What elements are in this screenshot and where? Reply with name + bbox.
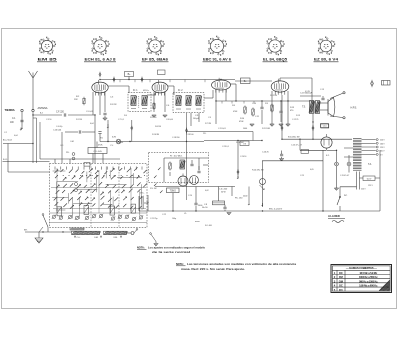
wire antena drop xyxy=(32,112,34,163)
capacitor C12 cathode bypass xyxy=(279,101,282,122)
svg-text:T.S.: T.S. xyxy=(302,106,306,109)
wire V1 cathode drop xyxy=(93,92,105,115)
svg-text:C.V.: C.V. xyxy=(110,145,114,147)
svg-text:C.15 47+47: C.15 47+47 xyxy=(340,175,349,177)
svg-text:C.24 16: C.24 16 xyxy=(240,156,247,158)
label FM 10,7 Mc xyxy=(170,155,183,157)
speaker cone H.P.S. xyxy=(328,98,335,117)
meter diamond M7 xyxy=(237,169,239,175)
label RED xyxy=(328,214,345,218)
svg-text:P.U.: P.U. xyxy=(66,152,70,154)
arrow M7 xyxy=(237,176,239,179)
label R14 value xyxy=(219,189,228,194)
ground lug arrow xyxy=(21,126,23,129)
FI2 internal links xyxy=(176,108,201,110)
mains switch arm xyxy=(337,196,341,211)
speaker frame xyxy=(327,99,329,116)
table GAMAS CUBIERTAS frame xyxy=(331,265,392,293)
tube label EF 85, 6BA6 xyxy=(142,58,169,62)
svg-text:C.15 47 + 47: C.15 47 + 47 xyxy=(291,145,303,147)
label interruptor xyxy=(24,230,28,232)
svg-text:Las tensiones anotadas son med: Las tensiones anotadas son medidas con v… xyxy=(187,262,297,266)
arrow to chassis xyxy=(20,128,22,131)
output transformer T.S. label xyxy=(302,106,306,109)
arrow lamp bottom xyxy=(261,203,263,206)
wire riser M4 xyxy=(131,120,133,142)
wire V3 plate riser xyxy=(220,79,222,82)
wire riser M3 xyxy=(107,120,109,142)
label heater line xyxy=(235,197,243,199)
wire FI1 secondary to V2 grid xyxy=(147,93,155,95)
volume potentiometer R.V. xyxy=(140,193,148,212)
wire V2 plate to FI2 xyxy=(168,86,174,95)
wire B+ rail xyxy=(282,138,352,140)
svg-text:16,5 Mc a 5,9 Mc: 16,5 Mc a 5,9 Mc xyxy=(359,271,377,275)
svg-text:O.M.: O.M. xyxy=(94,237,99,239)
svg-text:VOL.: VOL. xyxy=(140,193,145,195)
meter diamond M4 xyxy=(131,125,133,131)
IF transformer FI2 shield box xyxy=(173,93,204,113)
IF transformer FI1 trimmers xyxy=(131,96,147,109)
svg-text:ECH 81, 6 AJ 8: ECH 81, 6 AJ 8 xyxy=(85,58,116,62)
svg-text:T.V.: T.V. xyxy=(100,138,104,140)
ground chassis xyxy=(35,227,43,243)
table corner hatch xyxy=(379,280,390,291)
svg-text:C.6 a 500: C.6 a 500 xyxy=(219,189,228,191)
svg-text:C.23 0,1: C.23 0,1 xyxy=(222,146,230,148)
FM unit wires xyxy=(164,158,208,182)
wire HT right vertical xyxy=(322,150,324,211)
wire detector load drop xyxy=(191,113,199,126)
terminal box aux xyxy=(301,150,309,154)
wire CV links xyxy=(93,142,103,164)
label T.A. xyxy=(368,163,372,166)
wire meter branch xyxy=(237,141,239,179)
label 470K left xyxy=(243,196,248,198)
svg-text:R.16 3M: R.16 3M xyxy=(152,134,159,136)
svg-text:FO: FO xyxy=(339,288,343,292)
wire V3 cathode drop xyxy=(216,90,226,124)
svg-text:R.3 22K: R.3 22K xyxy=(110,104,117,106)
label C13 network xyxy=(300,93,313,95)
capacitor C14 box xyxy=(321,124,329,128)
wire chassis run xyxy=(25,231,72,233)
label escala xyxy=(269,208,283,210)
wire tierra drop xyxy=(21,112,23,126)
label C15 xyxy=(291,145,303,147)
capacitor C2 220pF xyxy=(56,112,66,117)
IF transformer FI1 shield box xyxy=(128,93,151,112)
trimmer row wires xyxy=(50,213,148,223)
svg-text:470K: 470K xyxy=(233,111,238,113)
resistor R9 divider xyxy=(252,108,254,117)
ground V4 cathode xyxy=(270,124,290,126)
svg-text:P.U.: P.U. xyxy=(203,133,207,135)
label R13 xyxy=(290,107,295,112)
meter diamond M4b xyxy=(185,128,187,134)
wire filter link xyxy=(300,139,326,150)
output transformer T.S. windings xyxy=(309,101,320,114)
svg-text:de la serie normal: de la serie normal xyxy=(152,250,190,254)
svg-text:0,5 W: 0,5 W xyxy=(305,91,310,93)
wire V3 to coupling xyxy=(230,84,236,101)
wire lamp branch vertical xyxy=(262,161,264,207)
wire long AF bus xyxy=(139,210,345,212)
mains tap labels xyxy=(380,140,385,157)
coil pack dashed enclosure xyxy=(50,164,148,228)
label C17 5000 xyxy=(198,205,203,207)
ground S2 xyxy=(154,244,158,246)
svg-text:R.11 10M: R.11 10M xyxy=(262,128,270,130)
wire tone drop xyxy=(172,193,174,211)
IF transformer FI2 secondary coil xyxy=(186,96,192,106)
svg-text:470K: 470K xyxy=(98,145,103,147)
svg-text:125 V: 125 V xyxy=(380,147,385,149)
note 1 heading xyxy=(137,245,147,249)
resistor R14 filter box xyxy=(213,201,225,205)
label C16b xyxy=(262,152,270,154)
svg-text:O.C.: O.C. xyxy=(60,145,64,147)
switch S2 near bar xyxy=(150,233,156,243)
svg-text:C.8 0,04: C.8 0,04 xyxy=(166,119,174,121)
switch S1 arm xyxy=(42,214,48,232)
wire mains connect xyxy=(345,210,380,212)
svg-text:220 V: 220 V xyxy=(380,140,385,142)
resistor R5 cathode xyxy=(153,102,155,110)
wire arrow branch xyxy=(248,187,250,203)
legend diamond symbol xyxy=(370,80,373,87)
wire HT verticals xyxy=(282,95,313,139)
note 1 text xyxy=(148,245,205,253)
capacitor C16b + ground xyxy=(279,151,283,161)
label R.15 tv xyxy=(98,138,104,147)
wire junction dots xyxy=(32,79,337,233)
wire V1 plate to FI1 xyxy=(108,86,129,93)
bus tick stubs xyxy=(120,80,254,104)
FM detector diode V3c xyxy=(190,176,199,185)
tone control box TONO xyxy=(167,188,180,193)
wire C2 to coil unit xyxy=(68,115,95,163)
svg-text:E.Z.: E.Z. xyxy=(326,155,330,157)
capacitor C8 electrolytic xyxy=(223,205,226,211)
antenna A1 xyxy=(29,71,38,110)
svg-text:455 Kc: 455 Kc xyxy=(143,90,149,92)
terminal box HT xyxy=(241,78,251,84)
label R10 470K xyxy=(239,118,245,123)
mains cord squiggle xyxy=(332,221,344,223)
table row 4 OC xyxy=(332,284,390,288)
electrolytic C15b xyxy=(347,155,351,173)
svg-text:560 Kc a 1500 Kc: 560 Kc a 1500 Kc xyxy=(359,279,378,283)
band labels OL OM FM xyxy=(77,237,118,239)
wire AF line xyxy=(216,100,312,102)
legend switch box symbol xyxy=(382,81,391,86)
wire antenna to C2 xyxy=(33,114,62,116)
svg-text:C.7 0,1: C.7 0,1 xyxy=(118,119,125,121)
label C9 detector xyxy=(193,115,200,120)
svg-text:EL 84, 6BQ5: EL 84, 6BQ5 xyxy=(263,58,287,62)
tube label EL 84, 6BQ5 xyxy=(263,58,288,62)
svg-text:ESC. 0,1-500 V: ESC. 0,1-500 V xyxy=(269,208,283,210)
svg-text:C.12 25: C.12 25 xyxy=(292,119,299,121)
pickup jacks P.U. xyxy=(66,152,75,160)
svg-text:C.4 47p: C.4 47p xyxy=(56,126,63,128)
label F.I.1 455 Kc xyxy=(133,90,149,92)
svg-text:masa. Red: 220 v. Sin sena: masa. Red: 220 v. Sin senal. Para ajuste… xyxy=(181,267,245,271)
svg-text:50+50: 50+50 xyxy=(202,207,208,209)
coil pack internal horizontal wires xyxy=(52,171,142,210)
wire HT segment right xyxy=(235,80,272,82)
table row 1 OC xyxy=(332,271,390,275)
label H.P.S. xyxy=(351,106,358,109)
svg-text:EZ 80, 6 V4: EZ 80, 6 V4 xyxy=(314,58,338,62)
wire tone cap xyxy=(300,96,325,100)
label C6 xyxy=(166,105,170,107)
wire transformer primary drop xyxy=(312,114,314,122)
tube socket base view V3 EBC91 xyxy=(208,36,227,56)
svg-text:160 V: 160 V xyxy=(380,143,385,145)
IF transformer FI1 secondary coil xyxy=(142,96,148,106)
trimmer box xyxy=(84,163,90,167)
svg-text:A LA RED: A LA RED xyxy=(328,214,340,218)
label C8 xyxy=(202,204,208,209)
junction box B+ label xyxy=(125,72,134,80)
arrow small left xyxy=(248,202,250,205)
tube socket base view V4 EL84 xyxy=(267,36,285,55)
band switch terminals xyxy=(74,236,121,237)
wire mains vertical right xyxy=(379,150,381,211)
tube socket base view V1 ECH81 xyxy=(92,36,110,55)
meter diamond M0 over V1 xyxy=(99,72,101,78)
ground detector return xyxy=(250,124,254,126)
wire coil taps verticals xyxy=(33,118,40,163)
ground C15 xyxy=(334,188,338,190)
svg-text:R.6 1M: R.6 1M xyxy=(155,126,161,128)
svg-text:B.6 2200, 1W: B.6 2200, 1W xyxy=(288,137,300,139)
svg-text:NOTA:: NOTA: xyxy=(137,245,145,249)
wire mid vertical xyxy=(155,113,235,200)
svg-text:R.V. 1M: R.V. 1M xyxy=(150,188,157,190)
svg-text:C.18 200: C.18 200 xyxy=(172,137,180,139)
wire aux bus xyxy=(262,160,323,162)
note 2 text xyxy=(181,262,297,271)
dial lamp L1 6,3V xyxy=(112,137,121,144)
component value labels texture xyxy=(4,89,374,227)
label C15 lower xyxy=(340,175,349,177)
wire speaker leads xyxy=(320,103,328,110)
svg-text:R.7 2M: R.7 2M xyxy=(205,123,211,125)
coil pack inner divider xyxy=(91,164,119,228)
table column dividers xyxy=(337,270,345,291)
power transformer core legs xyxy=(357,172,360,190)
svg-text:50 W: 50 W xyxy=(221,192,226,194)
meter diamond M5 xyxy=(281,125,283,131)
svg-text:OC: OC xyxy=(339,284,343,288)
power transformer T.A. primary winding xyxy=(353,139,362,171)
svg-text:6,3 V: 6,3 V xyxy=(367,179,372,181)
svg-text:C.21 25p: C.21 25p xyxy=(150,218,158,220)
svg-text:R.18 56K: R.18 56K xyxy=(236,142,244,144)
tube V3 EBC91 envelope xyxy=(212,78,231,93)
wire left feed xyxy=(3,143,33,145)
svg-text:TIERRA: TIERRA xyxy=(5,108,16,112)
wire V2 cathode network xyxy=(154,92,165,112)
capacitor C10 coupling xyxy=(260,107,263,109)
wire V4 screen xyxy=(272,91,288,124)
speaker terminals xyxy=(330,92,345,119)
ground V1 cathode xyxy=(103,118,107,120)
label C3 xyxy=(110,97,114,99)
svg-text:EF 85, 6BA6: EF 85, 6BA6 xyxy=(142,58,168,62)
wire avc to coils xyxy=(62,132,95,163)
wire FI2 to V3 grid xyxy=(204,90,213,98)
tuning gang box C.V. xyxy=(88,148,107,154)
tube V1 ECH81 envelope xyxy=(92,80,108,96)
svg-text:220 V: 220 V xyxy=(361,189,366,191)
pickup jacks P.U. lower xyxy=(75,183,78,192)
table row 5 FO xyxy=(334,288,343,292)
wire AVC bus xyxy=(100,141,204,143)
svg-text:H.P.S.: H.P.S. xyxy=(351,106,358,109)
svg-text:C.5 0,01: C.5 0,01 xyxy=(86,111,94,113)
capacitor C17 xyxy=(194,187,197,212)
rectifier V6 EZ80 envelope xyxy=(321,134,332,148)
svg-text:C.16 25: C.16 25 xyxy=(262,152,270,154)
ground V2 cathode xyxy=(152,115,167,117)
coil pack wires top xyxy=(40,144,120,164)
resistor R2 grid leak xyxy=(83,97,85,106)
wire transformer bottom run xyxy=(340,187,357,197)
wire R14 feed xyxy=(218,187,220,202)
svg-text:100 pF: 100 pF xyxy=(193,118,200,120)
wires crossing coil pack long xyxy=(51,168,146,213)
terminal box TV xyxy=(240,141,249,146)
svg-text:ANTENA: ANTENA xyxy=(38,106,48,110)
svg-text:O.M.: O.M. xyxy=(70,141,75,143)
trimmer capacitors row xyxy=(52,204,143,221)
label R6 2200 xyxy=(288,137,300,139)
band bar terminal circle xyxy=(127,229,138,235)
wire left bus B xyxy=(3,159,50,162)
svg-text:FIL. 150: FIL. 150 xyxy=(235,197,243,199)
terminal box HT2 xyxy=(321,124,329,128)
tube socket base view V6 EZ80 xyxy=(318,37,335,55)
svg-text:F.I : 10,7 Mc/s: F.I : 10,7 Mc/s xyxy=(170,155,183,157)
tube label ECH 81, 6 AJ 8 xyxy=(84,58,116,62)
FM unit coil xyxy=(180,160,186,169)
meter diamond M6 xyxy=(312,125,314,131)
wire PU line xyxy=(187,132,254,141)
tube label EZ 80, 6 V4 xyxy=(314,58,339,62)
svg-text:O.L.: O.L. xyxy=(77,237,81,239)
power transformer left taps xyxy=(344,148,353,157)
wire V4 plate to output transformer xyxy=(280,78,312,100)
FM unit slashes xyxy=(154,167,163,193)
capacitor C16 AVC xyxy=(53,130,81,134)
arrow M3 xyxy=(107,124,109,128)
coil pack switch contact stubs xyxy=(55,167,145,177)
wire AVC drop left xyxy=(98,132,101,142)
svg-text:470K: 470K xyxy=(239,121,244,123)
meter diamond M2 xyxy=(141,77,143,83)
svg-text:A C.2 0,04: A C.2 0,04 xyxy=(3,139,13,142)
label F.I. 2 xyxy=(178,90,183,92)
terminal box over V2 xyxy=(158,70,166,75)
tube V4 EL84 envelope xyxy=(271,79,289,95)
svg-text:R.12 1M: R.12 1M xyxy=(270,95,277,97)
dial pointer bar upper xyxy=(70,228,84,230)
wire AF takeoff xyxy=(138,196,140,211)
table row 3 OM xyxy=(332,279,390,283)
IF transformer FI1 primary coil xyxy=(131,96,137,106)
capacitor C1 100pF xyxy=(10,118,24,124)
resistor R12 cathode xyxy=(271,104,273,113)
note 2 heading xyxy=(176,262,186,266)
electrolytic C15a xyxy=(335,150,339,188)
tube label EBC 91, 6 AV 6 xyxy=(203,58,232,62)
svg-text:5,95 Mc a 600 Kc: 5,95 Mc a 600 Kc xyxy=(359,284,378,288)
label R2 xyxy=(74,96,80,101)
svg-text:R.5 150: R.5 150 xyxy=(150,117,157,119)
svg-text:F.O. 600: F.O. 600 xyxy=(205,225,213,227)
power transformer secondary stubs xyxy=(362,139,379,156)
tube socket base view V2 EF85 xyxy=(147,36,165,55)
svg-text:TONO: TONO xyxy=(170,191,177,193)
svg-text:EM 85: EM 85 xyxy=(38,58,57,62)
label R.14 value xyxy=(252,170,264,172)
wire C10 drop xyxy=(261,101,263,124)
svg-text:OC: OC xyxy=(339,271,343,275)
wire AVC bus extension xyxy=(204,140,262,142)
svg-text:C.V. 4-05: C.V. 4-05 xyxy=(93,151,102,153)
detector coil FI3 xyxy=(196,96,202,106)
wire left risers xyxy=(8,144,50,173)
svg-text:1600 Kc a 550 Kc: 1600 Kc a 550 Kc xyxy=(359,275,378,279)
table row 2 FM xyxy=(332,275,390,279)
svg-text:EBC 91, 6 AV 6: EBC 91, 6 AV 6 xyxy=(203,58,231,62)
svg-text:T.A.: T.A. xyxy=(368,163,372,166)
svg-text:Los ajustes son realizados seg: Los ajustes son realizados segun el mode… xyxy=(148,245,205,249)
tube socket base view V5 EM85 xyxy=(39,37,56,55)
svg-text:R.1 1M: R.1 1M xyxy=(76,119,82,121)
wire 6,3V link xyxy=(360,177,381,179)
terminal ANTENA xyxy=(32,106,48,112)
svg-text:— GAMAS CUBIERTAS —: — GAMAS CUBIERTAS — xyxy=(346,266,377,270)
svg-text:NOTA:: NOTA: xyxy=(176,262,184,266)
label C11 xyxy=(255,116,260,118)
tube label EM 85 xyxy=(37,58,57,62)
IF transformer FI2 primary coil xyxy=(176,96,182,106)
label C.2 values xyxy=(3,139,13,142)
svg-text:R.14 470, 1W: R.14 470, 1W xyxy=(252,170,264,172)
wire heater bus xyxy=(231,187,233,197)
meter diamond M1 xyxy=(113,77,115,83)
FM unit resistor xyxy=(169,162,171,171)
terminal TIERRA xyxy=(5,108,24,112)
band switch hatched bar xyxy=(72,231,128,234)
FM tuner dashed enclosure xyxy=(149,153,209,183)
svg-text:C.F. 220: C.F. 220 xyxy=(56,112,65,114)
coil pack winding symbols xyxy=(54,167,147,209)
svg-text:C.16 0,04: C.16 0,04 xyxy=(53,130,62,132)
wire rect cathode to caps xyxy=(327,148,337,150)
filament label box 6,3V xyxy=(361,176,375,191)
pilot lamp L2 xyxy=(260,179,266,190)
tube V2 EF85 envelope xyxy=(152,80,168,96)
FM unit caps xyxy=(190,160,200,173)
resistor R8 plate load xyxy=(244,106,246,115)
FM detector triode V3b xyxy=(178,174,188,187)
